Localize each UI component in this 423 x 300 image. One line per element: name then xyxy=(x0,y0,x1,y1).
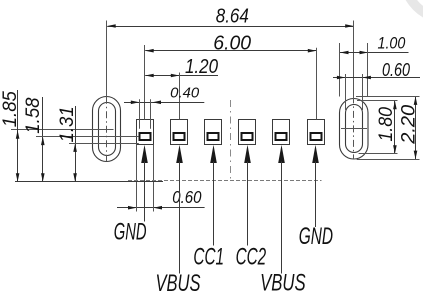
pin arrow P2 xyxy=(176,145,183,274)
svg-text:VBUS: VBUS xyxy=(260,269,306,296)
8.64 right extension line xyxy=(353,21,355,97)
dimension 1.58 xyxy=(22,97,45,182)
1.31 extension line xyxy=(69,143,139,145)
label VBUS (pin 5) xyxy=(260,269,306,296)
mounting hole right (inner slot) xyxy=(346,105,363,153)
left hole centerline vertical xyxy=(106,21,108,162)
dimension 0.60 bottom xyxy=(117,187,205,210)
label GND (pin 1) xyxy=(114,218,147,245)
svg-text:1.85: 1.85 xyxy=(0,91,21,127)
dimension 1.31 xyxy=(56,106,78,182)
pin arrow P6 xyxy=(312,145,319,227)
pin arrow P3 xyxy=(210,145,217,246)
svg-text:1.58: 1.58 xyxy=(22,97,44,133)
svg-text:CC1: CC1 xyxy=(193,244,224,271)
right hole centerline vertical xyxy=(353,21,355,160)
0.60 extension lines below pad P1 xyxy=(137,145,154,212)
dimension 1.00 xyxy=(340,33,409,54)
dimension 1.80 xyxy=(375,101,397,154)
1.00 extension lines xyxy=(340,43,368,97)
pad P2 (VBUS) xyxy=(171,120,188,145)
svg-text:CC2: CC2 xyxy=(236,244,267,271)
svg-text:VBUS: VBUS xyxy=(156,270,201,297)
pad P3 (CC1) xyxy=(205,120,222,145)
0.40 extension lines xyxy=(140,99,151,129)
pad P4 (CC2) xyxy=(239,120,256,145)
dimension 1.85 xyxy=(0,90,21,182)
label CC1 (pin 3) xyxy=(193,244,224,271)
right hole crosshair horizontal xyxy=(341,128,367,130)
svg-text:0.40: 0.40 xyxy=(170,86,200,102)
mounting hole left (inner slot) xyxy=(99,103,116,156)
1.58 extension line xyxy=(36,136,139,138)
dimension 0.60 right xyxy=(333,60,420,80)
svg-text:1.20: 1.20 xyxy=(185,55,218,78)
1.20 right extension line xyxy=(179,73,181,120)
dimension 8.64 xyxy=(107,5,354,28)
pin arrow P1 xyxy=(141,145,148,222)
mounting hole left (outer) xyxy=(93,97,121,162)
6.00 left extension line xyxy=(144,45,146,120)
1.80 extension lines xyxy=(357,101,398,154)
dimension 2.20 xyxy=(397,96,419,159)
dimension 6.00 xyxy=(145,31,316,54)
pad P6 (GND) xyxy=(308,120,325,145)
svg-text:0.60: 0.60 xyxy=(172,187,201,207)
label GND (pin 6) xyxy=(299,223,333,250)
svg-text:8.64: 8.64 xyxy=(216,5,249,28)
svg-text:6.00: 6.00 xyxy=(213,31,251,54)
dimension 1.20 xyxy=(145,55,218,78)
pin arrow P4 xyxy=(244,145,251,246)
svg-text:1.80: 1.80 xyxy=(375,107,397,142)
label VBUS (pin 2) xyxy=(156,270,201,297)
pad P5 (VBUS) xyxy=(273,120,290,145)
bottom reference line xyxy=(15,181,322,182)
dimension 0.40 xyxy=(124,86,204,105)
svg-text:GND: GND xyxy=(299,223,333,250)
2.20 extension lines xyxy=(356,97,420,160)
svg-text:2.20: 2.20 xyxy=(397,105,419,145)
svg-text:0.60: 0.60 xyxy=(382,60,410,80)
0.60 right extension lines xyxy=(346,74,363,110)
label CC2 (pin 4) xyxy=(236,244,267,271)
pin arrow P5 xyxy=(278,145,285,274)
6.00 right extension line xyxy=(316,48,318,120)
left hole crosshair horizontal / 1.85 extension xyxy=(11,129,114,131)
connector centerline (dashed) xyxy=(230,100,232,181)
mounting hole right (outer) xyxy=(340,99,369,160)
svg-text:1.00: 1.00 xyxy=(378,33,406,52)
svg-text:1.31: 1.31 xyxy=(56,106,78,142)
pad P1 (GND) xyxy=(137,120,154,145)
svg-text:GND: GND xyxy=(114,218,147,245)
watermark arc xyxy=(404,0,423,20)
